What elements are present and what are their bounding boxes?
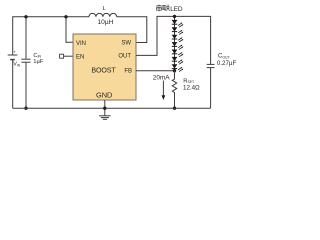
wire LED chain column <box>174 16 176 70</box>
wire battery column + top rail left segment <box>13 17 89 55</box>
svg-text:COUT: COUT <box>218 54 230 60</box>
svg-text:EN: EN <box>76 55 84 61</box>
LED D5 <box>172 50 184 57</box>
LED D3 <box>172 35 184 42</box>
wire VIN riser <box>66 17 73 42</box>
inductor L <box>89 13 117 16</box>
junction LED chain top on output rail <box>173 15 176 18</box>
battery V1 Vin <box>8 55 18 60</box>
ground <box>99 116 110 120</box>
capacitor Cout <box>207 64 215 67</box>
LED D7 <box>172 64 184 71</box>
capacitor Cin <box>21 59 30 62</box>
LED D1 <box>172 20 184 27</box>
svg-text:CIN: CIN <box>33 53 41 59</box>
current arrow 20mA <box>162 81 164 97</box>
svg-text:GND: GND <box>96 90 112 99</box>
svg-text:LED: LED <box>170 6 183 13</box>
resistor Rset <box>172 71 176 109</box>
junction Rset at bottom rail <box>173 107 176 110</box>
svg-text:+: + <box>14 50 17 55</box>
junction Cin bottom <box>24 107 27 110</box>
junction VIN riser at rail <box>64 15 67 18</box>
svg-text:0.27µF: 0.27µF <box>217 60 237 67</box>
svg-text:12.4Ω: 12.4Ω <box>183 84 200 91</box>
wire FB net <box>136 70 175 72</box>
svg-text:FB: FB <box>124 68 132 74</box>
junction FB / LED bottom / Rset <box>173 69 176 72</box>
svg-text:BOOST: BOOST <box>91 66 116 74</box>
svg-text:OUT: OUT <box>118 53 131 59</box>
svg-text:VIN: VIN <box>76 41 86 47</box>
junction GND at bottom rail <box>103 107 106 110</box>
wire top rail right of inductor <box>117 16 147 18</box>
label 串联LED series LED <box>157 5 170 12</box>
wire SW riser to pin SW <box>136 16 147 42</box>
wire Cout to bottom rail <box>210 68 212 108</box>
IC U1 BOOST converter block <box>73 34 136 100</box>
wire EN stub <box>64 55 73 57</box>
wire bottom rail <box>13 107 211 109</box>
LED D6 <box>172 57 184 64</box>
svg-text:20mA: 20mA <box>153 74 170 81</box>
LED D4 <box>172 42 184 49</box>
svg-text:10µH: 10µH <box>98 19 114 26</box>
svg-text:VIN: VIN <box>13 62 21 68</box>
LED D2 <box>172 27 184 34</box>
wire OUT net: stub, riser, output rail, Cout drop <box>136 16 211 64</box>
svg-text:L: L <box>103 6 107 12</box>
wire battery to bottom rail <box>12 60 14 109</box>
junction Cin top <box>24 15 27 18</box>
svg-text:1µF: 1µF <box>33 59 44 65</box>
wire Cin bottom column <box>25 63 27 109</box>
EN terminal square <box>60 54 64 58</box>
svg-text:SW: SW <box>121 41 131 47</box>
wire GND pin <box>104 100 106 116</box>
wire Cin top column <box>25 17 27 59</box>
